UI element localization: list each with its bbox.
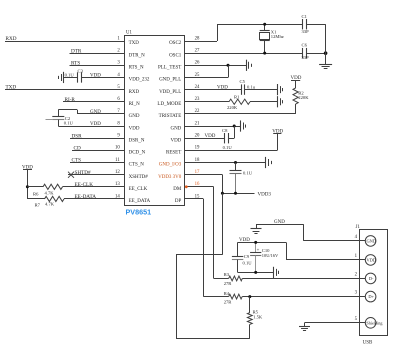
wire C5 to ground [244, 89, 277, 91]
ground (pin 18) [265, 157, 267, 168]
capacitor C6 33P [302, 48, 304, 58]
svg-text:RXD: RXD [129, 90, 140, 95]
junction gnd rail/C10 [254, 271, 257, 274]
svg-text:DTR: DTR [71, 48, 82, 54]
junction VDD/R6 [26, 185, 29, 188]
junction VDD/C10 [254, 241, 257, 244]
svg-text:10U/16V: 10U/16V [262, 253, 279, 258]
svg-text:DSR: DSR [72, 133, 83, 139]
wire DM to R3 [214, 278, 229, 280]
resistor R4 27R [229, 294, 242, 299]
svg-text:+: + [257, 249, 260, 254]
svg-text:XSHTD#: XSHTD# [129, 175, 149, 180]
svg-text:19: 19 [195, 146, 200, 151]
ground (pin 24) [277, 84, 279, 95]
svg-text:C5: C5 [240, 79, 246, 84]
svg-text:C1: C1 [302, 14, 308, 19]
ground (cap rail) [273, 267, 275, 278]
wire C3 to pin 4 VDD [81, 77, 124, 79]
svg-text:C6: C6 [302, 42, 308, 47]
svg-text:RESET: RESET [166, 151, 181, 156]
wire GND pin 21 [184, 126, 240, 128]
svg-text:1.5K: 1.5K [253, 315, 263, 320]
wire crystal rail vertical [325, 24, 327, 64]
junction D+/R5 [248, 295, 251, 298]
svg-text:28: 28 [195, 36, 200, 41]
junction pin 18 / C7 [234, 161, 237, 164]
ground (usb gnd) [256, 224, 258, 228]
svg-text:26: 26 [195, 61, 200, 66]
svg-text:EE_DATA: EE_DATA [129, 199, 151, 204]
svg-text:27R: 27R [224, 281, 233, 286]
junction pin 21 / C8 [233, 125, 236, 128]
svg-text:EE_CLK: EE_CLK [129, 187, 148, 192]
svg-text:0.1U: 0.1U [243, 260, 253, 265]
connector J1 USB [360, 230, 388, 336]
junction pins 26/25 [227, 64, 230, 67]
svg-text:10: 10 [115, 146, 120, 151]
wire CTS to pin 11 [70, 162, 124, 164]
svg-text:220K: 220K [298, 95, 309, 100]
svg-text:R4: R4 [224, 291, 230, 296]
svg-text:VDD_232: VDD_232 [129, 78, 150, 83]
no-connect cross at SHTD# [68, 172, 74, 178]
wire DP to R4 [203, 296, 228, 298]
svg-text:VDD: VDD [205, 134, 216, 139]
wire C2 to pin 8 VDD [58, 126, 124, 128]
svg-text:OSC1: OSC1 [169, 53, 182, 58]
resistor R1 220K [229, 99, 250, 104]
wire CD to pin 10 [72, 150, 124, 152]
wire pin 26 to pin 25 [228, 65, 230, 77]
wire VDD to R6 [27, 186, 43, 188]
junction VDD3/pin17 [221, 192, 224, 195]
wire VDD rail to J1 pin1 [238, 242, 286, 244]
capacitor C3 0.1U [77, 72, 79, 82]
svg-text:VDD: VDD [170, 138, 181, 143]
svg-text:DTR_N: DTR_N [129, 53, 146, 58]
capacitor C2 0.1U [58, 110, 60, 117]
wire RXD to pin 1 [5, 41, 124, 43]
wire C6 to ground rail [306, 53, 326, 55]
svg-text:U1: U1 [126, 31, 132, 36]
svg-text:CTS: CTS [72, 158, 82, 164]
svg-text:0.1U: 0.1U [243, 171, 253, 176]
svg-text:R6: R6 [33, 191, 39, 196]
svg-text:GND: GND [170, 126, 181, 131]
svg-text:GND: GND [366, 238, 376, 243]
ground (crystal rail) [319, 64, 332, 66]
wire TXD to pin 5 [5, 89, 124, 91]
svg-text:27R: 27R [224, 299, 233, 304]
wire RESET pin 19 [184, 150, 277, 152]
svg-text:4.7K: 4.7K [45, 201, 55, 206]
svg-text:27: 27 [195, 48, 200, 53]
capacitor C5 0.1u [241, 84, 243, 94]
svg-text:VDD: VDD [90, 74, 101, 79]
wire C1 to ground rail [306, 24, 326, 26]
ground (pin 23) [277, 96, 279, 107]
svg-text:GND: GND [129, 114, 140, 119]
J1 pin 5 Shielding [359, 322, 365, 324]
wire pin 7 GND [77, 113, 124, 115]
wire DM pin 16 [184, 186, 213, 188]
J1 pin 2 D- [359, 278, 365, 280]
wire GND_PLL pin 25 [184, 77, 228, 79]
svg-text:LD_MODE: LD_MODE [157, 102, 181, 107]
ground (shield) [304, 323, 306, 326]
wire R5 loop to VDD3 [249, 324, 251, 338]
ground (sideways) at C3 [63, 72, 65, 83]
resistor R7 4.7K [45, 196, 64, 201]
wire pin 21 to C8 [234, 126, 236, 138]
capacitor C7 0.1U [235, 163, 237, 171]
svg-text:TRISTATE: TRISTATE [159, 114, 182, 119]
wire pin 17 to VDD3 rail [184, 174, 222, 176]
capacitor C10 10U/16V [255, 242, 257, 252]
junction C6/ground rail [324, 51, 328, 55]
svg-text:RXD: RXD [6, 36, 17, 42]
wire DTR to pin 2 [70, 53, 125, 55]
capacitor C9 0.1U [237, 242, 239, 256]
junction VDD3/C7 [234, 192, 237, 195]
svg-text:DSR_N: DSR_N [129, 138, 145, 143]
wire VDD pin 20 [184, 138, 224, 140]
svg-text:0.1U: 0.1U [223, 145, 233, 150]
svg-text:D-: D- [369, 276, 374, 281]
svg-text:21: 21 [195, 121, 200, 126]
svg-text:VDD3 3V0: VDD3 3V0 [158, 175, 182, 180]
svg-text:J1: J1 [356, 225, 361, 230]
svg-text:RTS: RTS [71, 60, 80, 66]
svg-text:0.1U: 0.1U [64, 121, 74, 126]
svg-text:33P: 33P [302, 29, 310, 34]
resistor R2 220K [293, 88, 298, 104]
resistor R6 4.7K [43, 184, 62, 189]
wire R3 to J1 pin2 D- [242, 278, 365, 280]
svg-text:OSC2: OSC2 [169, 41, 182, 46]
IC U1 PV8651 [125, 36, 185, 206]
wire R1 to ground [250, 101, 277, 103]
junction X1 bottom [263, 52, 266, 55]
svg-text:R3: R3 [224, 272, 230, 277]
wire OSC2 pin 28 [184, 41, 217, 43]
svg-text:GND: GND [90, 110, 101, 115]
svg-text:VDD: VDD [90, 122, 101, 127]
wire GND to J1 pin4 [256, 224, 304, 226]
wire VDD_PLL pin 24 [184, 89, 241, 91]
svg-text:PLL_TEST: PLL_TEST [158, 66, 181, 71]
svg-text:0.1u: 0.1u [247, 85, 256, 90]
svg-text:USB: USB [363, 340, 373, 345]
wire shield to J1 pin5 [305, 322, 366, 324]
capacitor C8 0.1U [224, 133, 226, 143]
svg-text:TXD: TXD [129, 41, 140, 46]
svg-text:CTS_N: CTS_N [129, 163, 145, 168]
J1 pin 4 GND [359, 240, 365, 242]
ground (pin 21) [240, 120, 242, 131]
svg-text:D+: D+ [368, 294, 374, 299]
svg-text:0.1U: 0.1U [65, 72, 75, 77]
svg-text:4.7K: 4.7K [45, 191, 55, 196]
ground (pin 26) [246, 60, 248, 71]
J1 pin 1 VDD [359, 259, 365, 261]
wire RTS to pin 3 [70, 65, 125, 67]
junction X1 top [263, 23, 266, 26]
svg-text:CD: CD [74, 145, 81, 151]
svg-text:VDD3: VDD3 [258, 192, 272, 197]
J1 pin 3 D+ [359, 296, 365, 298]
svg-text:TXD: TXD [6, 85, 17, 91]
svg-text:C3: C3 [78, 68, 84, 73]
svg-text:GND_PLL: GND_PLL [159, 78, 181, 83]
wire R4 to J1 pin3 D+ [242, 296, 365, 298]
capacitor C1 33P [302, 19, 304, 29]
svg-text:VDD_PLL: VDD_PLL [159, 90, 181, 95]
wire R2 to TRISTATE pin 22 [295, 104, 297, 114]
svg-text:33P: 33P [302, 55, 310, 60]
wire OSC1 pin 27 [184, 53, 303, 55]
svg-text:C8: C8 [222, 128, 228, 133]
svg-text:VDD: VDD [366, 257, 376, 262]
wire PLL_TEST pin 26 [184, 65, 246, 67]
crystal X1 12Mhz [264, 24, 266, 31]
svg-text:RI_N: RI_N [129, 102, 141, 107]
svg-text:C10: C10 [262, 248, 270, 253]
resistor R3 27R [229, 276, 243, 281]
svg-text:GND_I/O3: GND_I/O3 [159, 163, 182, 168]
wire DSR to pin 9 [70, 138, 124, 140]
svg-text:DCD_N: DCD_N [129, 151, 146, 156]
svg-text:VDD: VDD [217, 86, 228, 91]
wire VDD to R7 [27, 198, 44, 200]
wire VDD3 rail [222, 193, 254, 195]
wire RI-R to pin 6 [63, 101, 124, 103]
svg-text:DM: DM [173, 187, 182, 192]
svg-text:C9: C9 [244, 254, 250, 259]
wire ground to C3 [64, 77, 78, 79]
svg-text:VDD: VDD [129, 126, 140, 131]
svg-text:12Mhz: 12Mhz [271, 34, 284, 39]
wire SHTD# to pin 12 [68, 174, 124, 176]
svg-text:RI-R: RI-R [65, 97, 76, 103]
svg-text:R1: R1 [234, 94, 240, 99]
svg-text:SHTD#: SHTD# [75, 170, 92, 176]
svg-text:220K: 220K [227, 105, 238, 110]
svg-text:EE-DATA: EE-DATA [75, 194, 97, 200]
svg-text:EE-CLK: EE-CLK [75, 182, 94, 188]
wire LD_MODE pin 23 [184, 101, 229, 103]
wire DP pin 15 [184, 198, 203, 200]
wire R7 to pin 14 EE-DATA [64, 198, 124, 200]
svg-text:RTS_N: RTS_N [129, 66, 144, 71]
wire GND_I/O3 pin 18 [184, 162, 266, 164]
svg-text:R7: R7 [35, 203, 41, 208]
wire R6 to pin 13 EE-CLK [63, 186, 125, 188]
svg-text:Shielding: Shielding [366, 320, 383, 325]
svg-text:20: 20 [195, 134, 200, 139]
svg-text:PV8651: PV8651 [126, 207, 152, 216]
resistor R5 1.5K [249, 297, 251, 313]
svg-text:DP: DP [175, 199, 182, 204]
wire ground rail [238, 272, 274, 274]
